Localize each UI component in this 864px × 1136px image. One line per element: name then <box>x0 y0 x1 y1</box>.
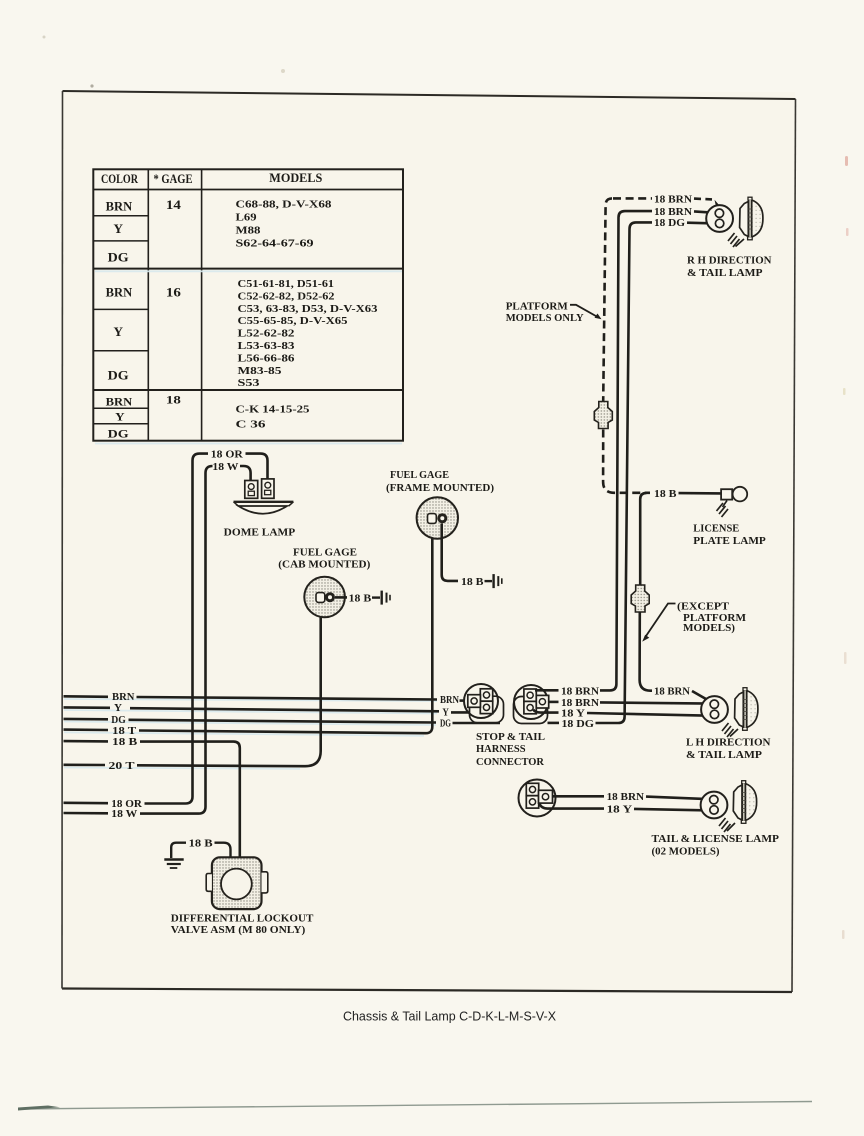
wire 18BRN tail license <box>553 795 605 798</box>
inline connector on dashed wire <box>594 402 612 429</box>
wire 18T left stub <box>64 728 109 731</box>
ground bars cab gage <box>381 591 383 605</box>
svg-text:HARNESS: HARNESS <box>476 743 526 755</box>
leader platform models <box>570 305 599 318</box>
cab gage terminal right <box>325 592 335 602</box>
stop tail connector left shell <box>470 696 504 723</box>
svg-text:18 BRN: 18 BRN <box>654 195 693 206</box>
svg-text:C68-88, D-V-X68: C68-88, D-V-X68 <box>236 200 332 211</box>
table column divider 2 <box>201 169 203 440</box>
color column row lines <box>93 215 148 217</box>
dome lamp lens <box>239 506 288 514</box>
svg-text:& TAIL LAMP: & TAIL LAMP <box>686 749 762 761</box>
svg-text:DG: DG <box>111 715 126 726</box>
svg-text:18 T: 18 T <box>112 726 136 737</box>
wire 18OR riser to dome lamp <box>145 454 209 804</box>
wire 18B run to lockout valve <box>140 742 240 858</box>
license plate lamp socket <box>721 489 732 499</box>
svg-text:16: 16 <box>166 286 181 300</box>
border frame bottom <box>62 989 792 993</box>
svg-text:18 B: 18 B <box>112 737 137 748</box>
svg-text:VALVE ASM (M 80 ONLY): VALVE ASM (M 80 ONLY) <box>171 924 306 936</box>
tail license connector pins <box>526 783 538 795</box>
svg-text:(EXCEPT: (EXCEPT <box>677 600 730 612</box>
wire Y stub into connector <box>451 711 471 714</box>
wire Y left stub <box>64 706 111 709</box>
table header underline <box>93 189 403 191</box>
wire 20T left stub <box>64 763 106 766</box>
wire BRN main run <box>137 697 438 700</box>
wire 18DG into RH socket <box>687 221 715 224</box>
stop tail connector left pins <box>480 689 492 701</box>
wire DG main run <box>129 720 437 723</box>
wire 18BRN row2 from connector <box>549 701 559 704</box>
dome lamp base <box>234 501 294 503</box>
svg-text:18 W: 18 W <box>212 462 238 473</box>
table section divider 2 <box>93 389 403 391</box>
ground bars frame gage <box>492 574 494 588</box>
svg-text:C53, 63-83, D53, D-V-X63: C53, 63-83, D53, D-V-X63 <box>238 304 378 315</box>
svg-text:Y: Y <box>115 410 125 424</box>
wire 18W left stub <box>64 812 109 815</box>
RH lamp socket <box>706 205 733 232</box>
wire 18T run to frame gage <box>139 526 432 733</box>
svg-text:BRN: BRN <box>106 286 133 300</box>
wire color table outer box <box>93 169 403 440</box>
svg-text:DG: DG <box>108 369 129 383</box>
tail license connector circle <box>519 780 556 817</box>
svg-text:18 BRN: 18 BRN <box>654 207 693 218</box>
svg-text:FUEL GAGE: FUEL GAGE <box>390 469 449 481</box>
border frame right <box>792 99 796 992</box>
svg-text:C51-61-81, D51-61: C51-61-81, D51-61 <box>238 279 335 290</box>
wire 18BRN into RH socket <box>694 211 715 212</box>
svg-text:DIFFERENTIAL LOCKOUT: DIFFERENTIAL LOCKOUT <box>171 913 314 925</box>
LH lamp socket <box>701 696 728 723</box>
svg-text:MODELS): MODELS) <box>683 622 735 634</box>
svg-text:BRN: BRN <box>440 695 460 706</box>
fuel gage frame mounted body <box>417 497 458 538</box>
wire 18W drop to dome socket <box>240 466 251 481</box>
inline connector except platform <box>631 585 649 612</box>
svg-text:DG: DG <box>108 426 129 440</box>
svg-text:(02 MODELS): (02 MODELS) <box>652 846 720 858</box>
tail license lamp socket <box>701 792 728 819</box>
svg-text:R H DIRECTION: R H DIRECTION <box>687 255 772 267</box>
leader except platform <box>645 604 676 638</box>
table section divider 1 <box>93 268 403 270</box>
frame gage terminal right <box>437 513 447 523</box>
ground symbol at lockout valve <box>171 843 186 858</box>
border frame left <box>61 91 64 989</box>
tail license lamp lens <box>733 781 756 824</box>
wire Y main run <box>130 708 439 711</box>
wire 18B to license lamp <box>679 492 722 495</box>
svg-text:18 W: 18 W <box>111 809 137 820</box>
svg-text:TAIL & LICENSE LAMP: TAIL & LICENSE LAMP <box>652 833 780 845</box>
RH lamp lens <box>740 197 763 240</box>
svg-text:BRN: BRN <box>106 200 133 214</box>
svg-text:18 BRN: 18 BRN <box>607 792 645 803</box>
wire 18DG from connector <box>548 722 560 725</box>
svg-text:CONNECTOR: CONNECTOR <box>476 756 545 768</box>
svg-text:LICENSE: LICENSE <box>693 522 739 534</box>
dashed wire into RH socket with arrow <box>694 197 712 200</box>
dashed wire to label <box>613 197 652 200</box>
paper specks <box>43 36 46 39</box>
svg-text:18 DG: 18 DG <box>562 719 595 730</box>
stop tail connector right circle <box>514 685 548 719</box>
svg-text:* GAGE: * GAGE <box>154 171 193 186</box>
svg-text:(CAB MOUNTED): (CAB MOUNTED) <box>278 559 370 571</box>
svg-text:18 B: 18 B <box>461 577 484 588</box>
svg-text:20 T: 20 T <box>109 761 135 772</box>
svg-text:18 OR: 18 OR <box>211 450 244 461</box>
table column divider 1 <box>147 169 149 440</box>
stop tail connector right shell <box>514 697 548 724</box>
page bottom edge <box>18 1102 812 1110</box>
wire BRN left stub <box>64 695 109 698</box>
wire 18BRN row1 from connector <box>535 689 559 692</box>
wire 20T run to cab gage <box>137 614 321 766</box>
svg-text:18: 18 <box>166 393 181 407</box>
wire 18Y tail license <box>539 804 604 809</box>
wire 18DG riser up to RH lamp <box>596 222 653 723</box>
differential lockout valve body <box>212 857 262 909</box>
svg-text:14: 14 <box>166 198 182 212</box>
svg-text:Y: Y <box>442 708 449 719</box>
svg-text:18 B: 18 B <box>349 593 372 604</box>
LH lamp ground <box>730 729 738 737</box>
svg-text:FUEL GAGE: FUEL GAGE <box>293 547 357 559</box>
LH lamp lens <box>735 688 758 731</box>
cab gage terminal left <box>316 593 325 603</box>
valve left tab <box>206 874 212 892</box>
license plate lamp bulb <box>733 487 748 502</box>
svg-text:PLATE LAMP: PLATE LAMP <box>693 535 766 547</box>
svg-text:MODELS ONLY: MODELS ONLY <box>506 312 584 324</box>
svg-text:COLOR: COLOR <box>101 171 138 186</box>
wire DG stub along connector bottom <box>453 722 501 725</box>
svg-text:PLATFORM: PLATFORM <box>506 301 569 313</box>
svg-text:18 B: 18 B <box>189 839 213 850</box>
dashed wire below connector <box>603 430 650 493</box>
svg-text:L H DIRECTION: L H DIRECTION <box>686 737 771 749</box>
dome lamp socket left <box>245 481 258 499</box>
svg-text:L69: L69 <box>236 213 257 224</box>
wire 18BRN diagonal into LH socket <box>692 691 711 702</box>
wire 18Y into tail socket <box>634 809 710 811</box>
wire 18BRN row2 to LH socket <box>600 702 711 703</box>
wire frame gage to ground 18 B <box>442 524 458 581</box>
svg-text:L52-62-82: L52-62-82 <box>238 329 295 340</box>
wire from 18B node down to LH lamp <box>640 493 646 585</box>
svg-text:18 Y: 18 Y <box>561 708 586 719</box>
wire BRN stub into connector <box>460 699 472 702</box>
stop tail connector left circle <box>464 684 498 718</box>
svg-text:BRN: BRN <box>112 692 135 703</box>
stop tail connector right pins <box>524 689 536 701</box>
svg-text:L56-66-86: L56-66-86 <box>238 353 295 364</box>
svg-text:C52-62-82, D52-62: C52-62-82, D52-62 <box>238 291 335 302</box>
wire 18BRN into tail socket <box>646 797 710 800</box>
svg-text:L53-63-83: L53-63-83 <box>238 341 295 352</box>
wire DG left stub <box>64 718 109 721</box>
svg-text:18 B: 18 B <box>654 489 677 500</box>
svg-text:S62-64-67-69: S62-64-67-69 <box>236 239 314 250</box>
wire cab gage to ground 18 B <box>335 596 347 599</box>
svg-text:Chassis & Tail Lamp C-D-K-L-M-: Chassis & Tail Lamp C-D-K-L-M-S-V-X <box>343 1010 557 1024</box>
svg-text:18 DG: 18 DG <box>654 218 685 229</box>
svg-text:M88: M88 <box>236 226 261 237</box>
svg-text:(FRAME MOUNTED): (FRAME MOUNTED) <box>386 482 494 494</box>
RH lamp ground <box>736 239 745 247</box>
wire below connector to 18BRN <box>640 612 652 691</box>
cyan scan fringes <box>64 271 437 769</box>
svg-text:Y: Y <box>114 325 124 339</box>
svg-text:DG: DG <box>440 718 451 729</box>
valve right tab <box>262 872 268 893</box>
frame gage terminal left <box>428 514 437 524</box>
fuel gage cab mounted body <box>304 577 345 618</box>
dashed platform wire riser <box>603 198 612 401</box>
wire 18Y to LH socket <box>587 713 710 716</box>
svg-text:M83-85: M83-85 <box>238 366 282 377</box>
svg-text:BRN: BRN <box>106 394 133 408</box>
tail license lamp ground <box>727 823 735 831</box>
svg-text:18 Y: 18 Y <box>607 805 634 816</box>
svg-text:MODELS: MODELS <box>269 170 322 185</box>
svg-text:STOP & TAIL: STOP & TAIL <box>476 731 545 743</box>
svg-text:18 BRN: 18 BRN <box>561 686 600 697</box>
svg-text:C 36: C 36 <box>236 420 266 431</box>
svg-text:DOME LAMP: DOME LAMP <box>224 526 296 538</box>
svg-text:& TAIL LAMP: & TAIL LAMP <box>687 267 763 279</box>
svg-text:C55-65-85, D-V-X65: C55-65-85, D-V-X65 <box>238 316 348 327</box>
svg-text:S53: S53 <box>238 378 260 389</box>
wire 18Y from connector <box>533 710 558 713</box>
wire 18OR drop to dome socket <box>246 454 268 479</box>
svg-text:Y: Y <box>114 222 124 236</box>
svg-text:C-K 14-15-25: C-K 14-15-25 <box>236 405 310 416</box>
license lamp ground <box>723 501 728 508</box>
dome lamp socket right <box>262 479 274 498</box>
wire 18OR left stub <box>64 801 109 804</box>
svg-text:DG: DG <box>108 251 129 265</box>
border frame top <box>63 91 796 99</box>
wire 18W riser to dome lamp <box>140 466 213 814</box>
svg-text:18 BRN: 18 BRN <box>654 687 691 698</box>
wire valve ground lead <box>215 843 231 858</box>
svg-text:Y: Y <box>114 703 123 714</box>
wire 18BRN row1 riser up <box>600 211 652 690</box>
wire 18B left stub <box>64 740 109 743</box>
